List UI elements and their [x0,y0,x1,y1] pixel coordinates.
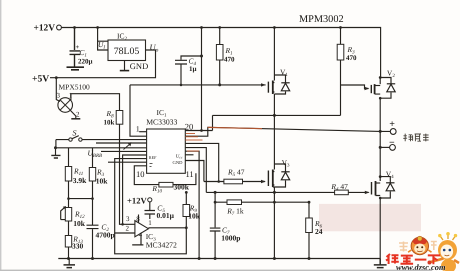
switch S wire [56,140,147,148]
vertical to bottom rail x199 [185,151,199,258]
pin 1 stub [139,131,146,133]
svg-text:R4 47: R4 47 [330,182,348,193]
resistor R3b body [89,168,95,182]
motor plus wire [185,127,390,136]
scan border left [0,0,1,271]
MOSFET V1 [261,28,290,116]
svg-text:GND: GND [173,160,184,165]
MOSFET V2 [365,78,396,100]
pin wire to opamp pin2 [115,159,147,233]
svg-text:3.9k: 3.9k [73,176,87,185]
svg-text:MPM3002: MPM3002 [299,14,344,25]
+5V wire from 78L05 output [50,50,156,78]
R8 leads chain to opamp pin3 [71,94,135,225]
resistor R6 body [306,218,313,233]
+5V drop wire to sensor [56,78,60,102]
svg-text:R5 47: R5 47 [227,168,245,179]
watermark faint chars [399,242,437,252]
ground bar bottom left [64,265,76,268]
svg-text:10k: 10k [188,212,201,221]
opamp pin8 wire [138,215,140,223]
svg-text:+12V: +12V [34,24,56,34]
svg-text:+12V: +12V [127,195,147,205]
motor minus stub [380,146,389,148]
svg-text:4: 4 [139,231,143,239]
svg-text:300k: 300k [174,183,190,192]
svg-text:330: 330 [72,242,84,251]
+12V opamp terminal [148,198,152,202]
pin20 wire [185,130,212,132]
svg-text:3: 3 [57,92,61,100]
R11 to R12 lead [69,181,93,208]
svg-text:24: 24 [315,227,323,236]
resistor R12 body [65,208,71,222]
sensor pin2 ground bar [71,118,80,120]
+12V rail wire [62,28,381,78]
resistor R8 body [116,111,123,125]
watermark giraffe mascot [428,232,460,271]
R3b bottom to C2 [87,181,99,259]
svg-text:11: 11 [186,169,194,179]
resistor R3 leads and V2 gate tap [341,28,369,116]
motor terminal minus [390,145,396,151]
svg-text:4700p: 4700p [96,231,115,240]
R12 wiper arrow [61,207,65,219]
R3b top lead [92,148,94,168]
vcc vertical to pin 20 [201,28,203,131]
label jiedianji motor CJK [403,134,428,142]
gate line to V1 [130,84,266,86]
resistor R11 body [65,167,71,182]
line B from IC to V4 gate [185,148,368,193]
R5 gate path to V3 [185,143,265,181]
watermark red text weiku [386,254,440,264]
R13 bottom lead [68,247,70,259]
R6 leads [308,202,310,258]
svg-text:1000p: 1000p [221,234,240,243]
svg-text:2: 2 [126,224,130,232]
R10 loop pins 10-11 [134,166,196,185]
resistor R3 body [337,44,344,60]
svg-text:8: 8 [136,215,140,223]
MOSFET V3 [261,115,290,187]
R9 leads [185,192,187,227]
resistor R10 body [159,182,173,187]
svg-text:10k: 10k [96,177,109,186]
watermark pink block [319,204,421,231]
wire line-A corner down to IC pin2 [130,85,147,136]
svg-text:GND: GND [130,61,148,71]
svg-text:1: 1 [136,125,140,134]
IC2 input wire [98,28,108,51]
Ubb rail [56,147,147,149]
svg-text:1µ: 1µ [189,65,197,73]
svg-text:2: 2 [76,111,80,119]
opamp feedback loop [115,228,187,254]
resistor R1 body [216,45,223,61]
ground at rail end below V4 [374,259,387,268]
svg-text:MC33033: MC33033 [146,117,177,126]
watermark monkey mascot [408,236,431,254]
R11 top lead [68,148,70,167]
svg-text:R7 1k: R7 1k [226,207,244,218]
orange pin stubs scan artifact [185,127,262,151]
C7 branch vertical [210,192,221,258]
svg-text:1: 1 [148,219,152,227]
scan border bottom [0,270,432,271]
svg-text:10: 10 [136,169,145,179]
MOSFET V4 [365,177,395,200]
svg-text:10k: 10k [104,119,115,127]
svg-text:+: + [389,119,395,130]
resistor R13 body [65,236,71,248]
resistor R5 body [224,179,243,184]
MPX5100 sensor circle [58,98,73,113]
svg-text:220µ: 220µ [78,58,93,66]
IC1 internal marks [150,164,153,167]
svg-text:1: 1 [69,92,73,100]
R12 to R13 lead [68,221,70,236]
resistor R12 arrow head [63,206,66,209]
ground bar below switch [51,155,60,158]
switch blade [72,136,79,139]
motor terminal plus [390,129,396,135]
pin wire join pin3 [123,155,147,224]
ground bar IC2 [120,70,129,72]
opamp IC3 triangle [135,221,149,237]
R7 line [215,201,309,203]
terminal +12V [57,25,62,30]
svg-text:78L05: 78L05 [114,46,140,57]
svg-text:−: − [389,138,395,149]
capacitor C4 wire [175,56,202,85]
resistor R1 leads [219,28,221,85]
bus arrow mark [124,143,131,150]
svg-text:+5V: +5V [32,73,49,84]
sensor pin2 drop [71,111,76,119]
svg-text:+: + [76,44,80,51]
svg-text:REF: REF [149,155,157,160]
svg-text:20: 20 [185,122,194,132]
+12V terminal to C5 [145,202,156,219]
svg-text:470: 470 [346,54,357,62]
ground symbol at rail left [68,259,70,265]
IC2 78L05 box [108,40,146,61]
bottom ground rail [58,258,380,260]
V3 source vertical to rail [273,187,275,259]
IC2 ground stub [124,61,126,71]
resistor R4 body [335,190,349,195]
pin stub right [185,154,193,156]
switch ground drop [55,148,57,155]
phase line to motor [213,115,341,130]
motor chain vertical V2 to V4 [379,98,381,258]
resistor R9 body [183,205,190,217]
svg-text:10k: 10k [73,219,86,228]
svg-text:470: 470 [224,56,235,64]
capacitor C1 [70,28,81,67]
svg-text:0.01µ: 0.01µ [157,211,175,220]
svg-text:MPX5100: MPX5100 [59,83,91,92]
svg-text:MC34272: MC34272 [146,241,177,250]
svg-text:S: S [73,129,77,138]
left bus pin lines [96,143,147,162]
ground below C1 [67,67,85,70]
IC1 MC33033 box [147,129,186,173]
switch contact circles [69,138,72,141]
opamp pin4 ground [132,233,143,245]
svg-text:3: 3 [126,215,130,223]
resistor R7 body [227,200,242,205]
